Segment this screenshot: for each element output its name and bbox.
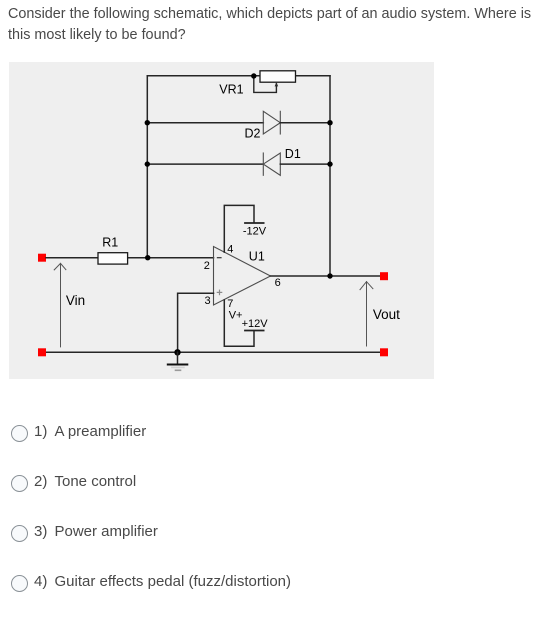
svg-text:2: 2 (204, 260, 210, 272)
wire: left feedback rail (146, 76, 148, 258)
wire: input row (46, 257, 214, 259)
wire: top row to VR1 (147, 75, 260, 77)
terminal: Vin bottom (red square) (38, 348, 46, 356)
Vout arrow (366, 282, 368, 346)
op-amp U1 (214, 247, 271, 306)
node: output junction (327, 273, 332, 278)
+12V supply bar (245, 330, 264, 332)
node: input junction (145, 255, 150, 260)
svg-text:VR1: VR1 (219, 82, 243, 96)
terminal: Vout top (red square) (380, 272, 388, 280)
wire: pin 7 to +12V supply (224, 300, 254, 346)
terminal: Vout bottom (red square) (380, 348, 388, 356)
wire: right rail (329, 76, 331, 276)
svg-text:V+: V+ (229, 310, 243, 322)
svg-text:+12V: +12V (242, 318, 269, 330)
potentiometer VR1 wiper (254, 77, 277, 93)
-12V supply bar (245, 222, 264, 224)
wire: pin 4 to -12V supply (224, 205, 254, 252)
node: D2 left (145, 120, 150, 125)
terminal: Vin top (red square) (38, 254, 46, 262)
wire: pin 3 input (178, 293, 214, 352)
node: VR1 junction (251, 73, 256, 78)
wire: D2 row left (147, 122, 263, 124)
svg-text:-12V: -12V (243, 225, 267, 237)
node: ground junction (174, 349, 180, 355)
potentiometer VR1 body (260, 71, 296, 82)
wire: bottom ground rail (46, 351, 380, 353)
ground (177, 352, 179, 364)
diode D2 (263, 111, 280, 134)
svg-text:D1: D1 (285, 147, 301, 161)
svg-text:R1: R1 (102, 236, 118, 250)
svg-text:Vin: Vin (66, 293, 85, 308)
schematic panel (9, 62, 434, 379)
pin 2 minus sign (217, 257, 221, 259)
wire: D1 row right (280, 163, 330, 165)
Vin arrow (60, 263, 62, 347)
svg-text:6: 6 (275, 277, 281, 289)
svg-text:3: 3 (205, 295, 211, 307)
node: D1 right (327, 161, 332, 166)
node: D1 left (145, 161, 150, 166)
diode D1 (263, 153, 280, 175)
svg-text:D2: D2 (245, 127, 261, 141)
node: D2 right (327, 120, 332, 125)
pin 3 plus sign (217, 291, 221, 293)
wire: output row (271, 275, 381, 277)
wire: D2 row right (280, 122, 330, 124)
wire: D1 row left (147, 163, 263, 165)
resistor R1 (98, 253, 128, 264)
wire: VR1 to right rail (296, 75, 331, 77)
svg-text:7: 7 (227, 298, 233, 310)
svg-text:U1: U1 (249, 250, 265, 264)
svg-text:Vout: Vout (373, 307, 400, 322)
svg-text:4: 4 (227, 244, 233, 256)
options (11, 425, 28, 442)
